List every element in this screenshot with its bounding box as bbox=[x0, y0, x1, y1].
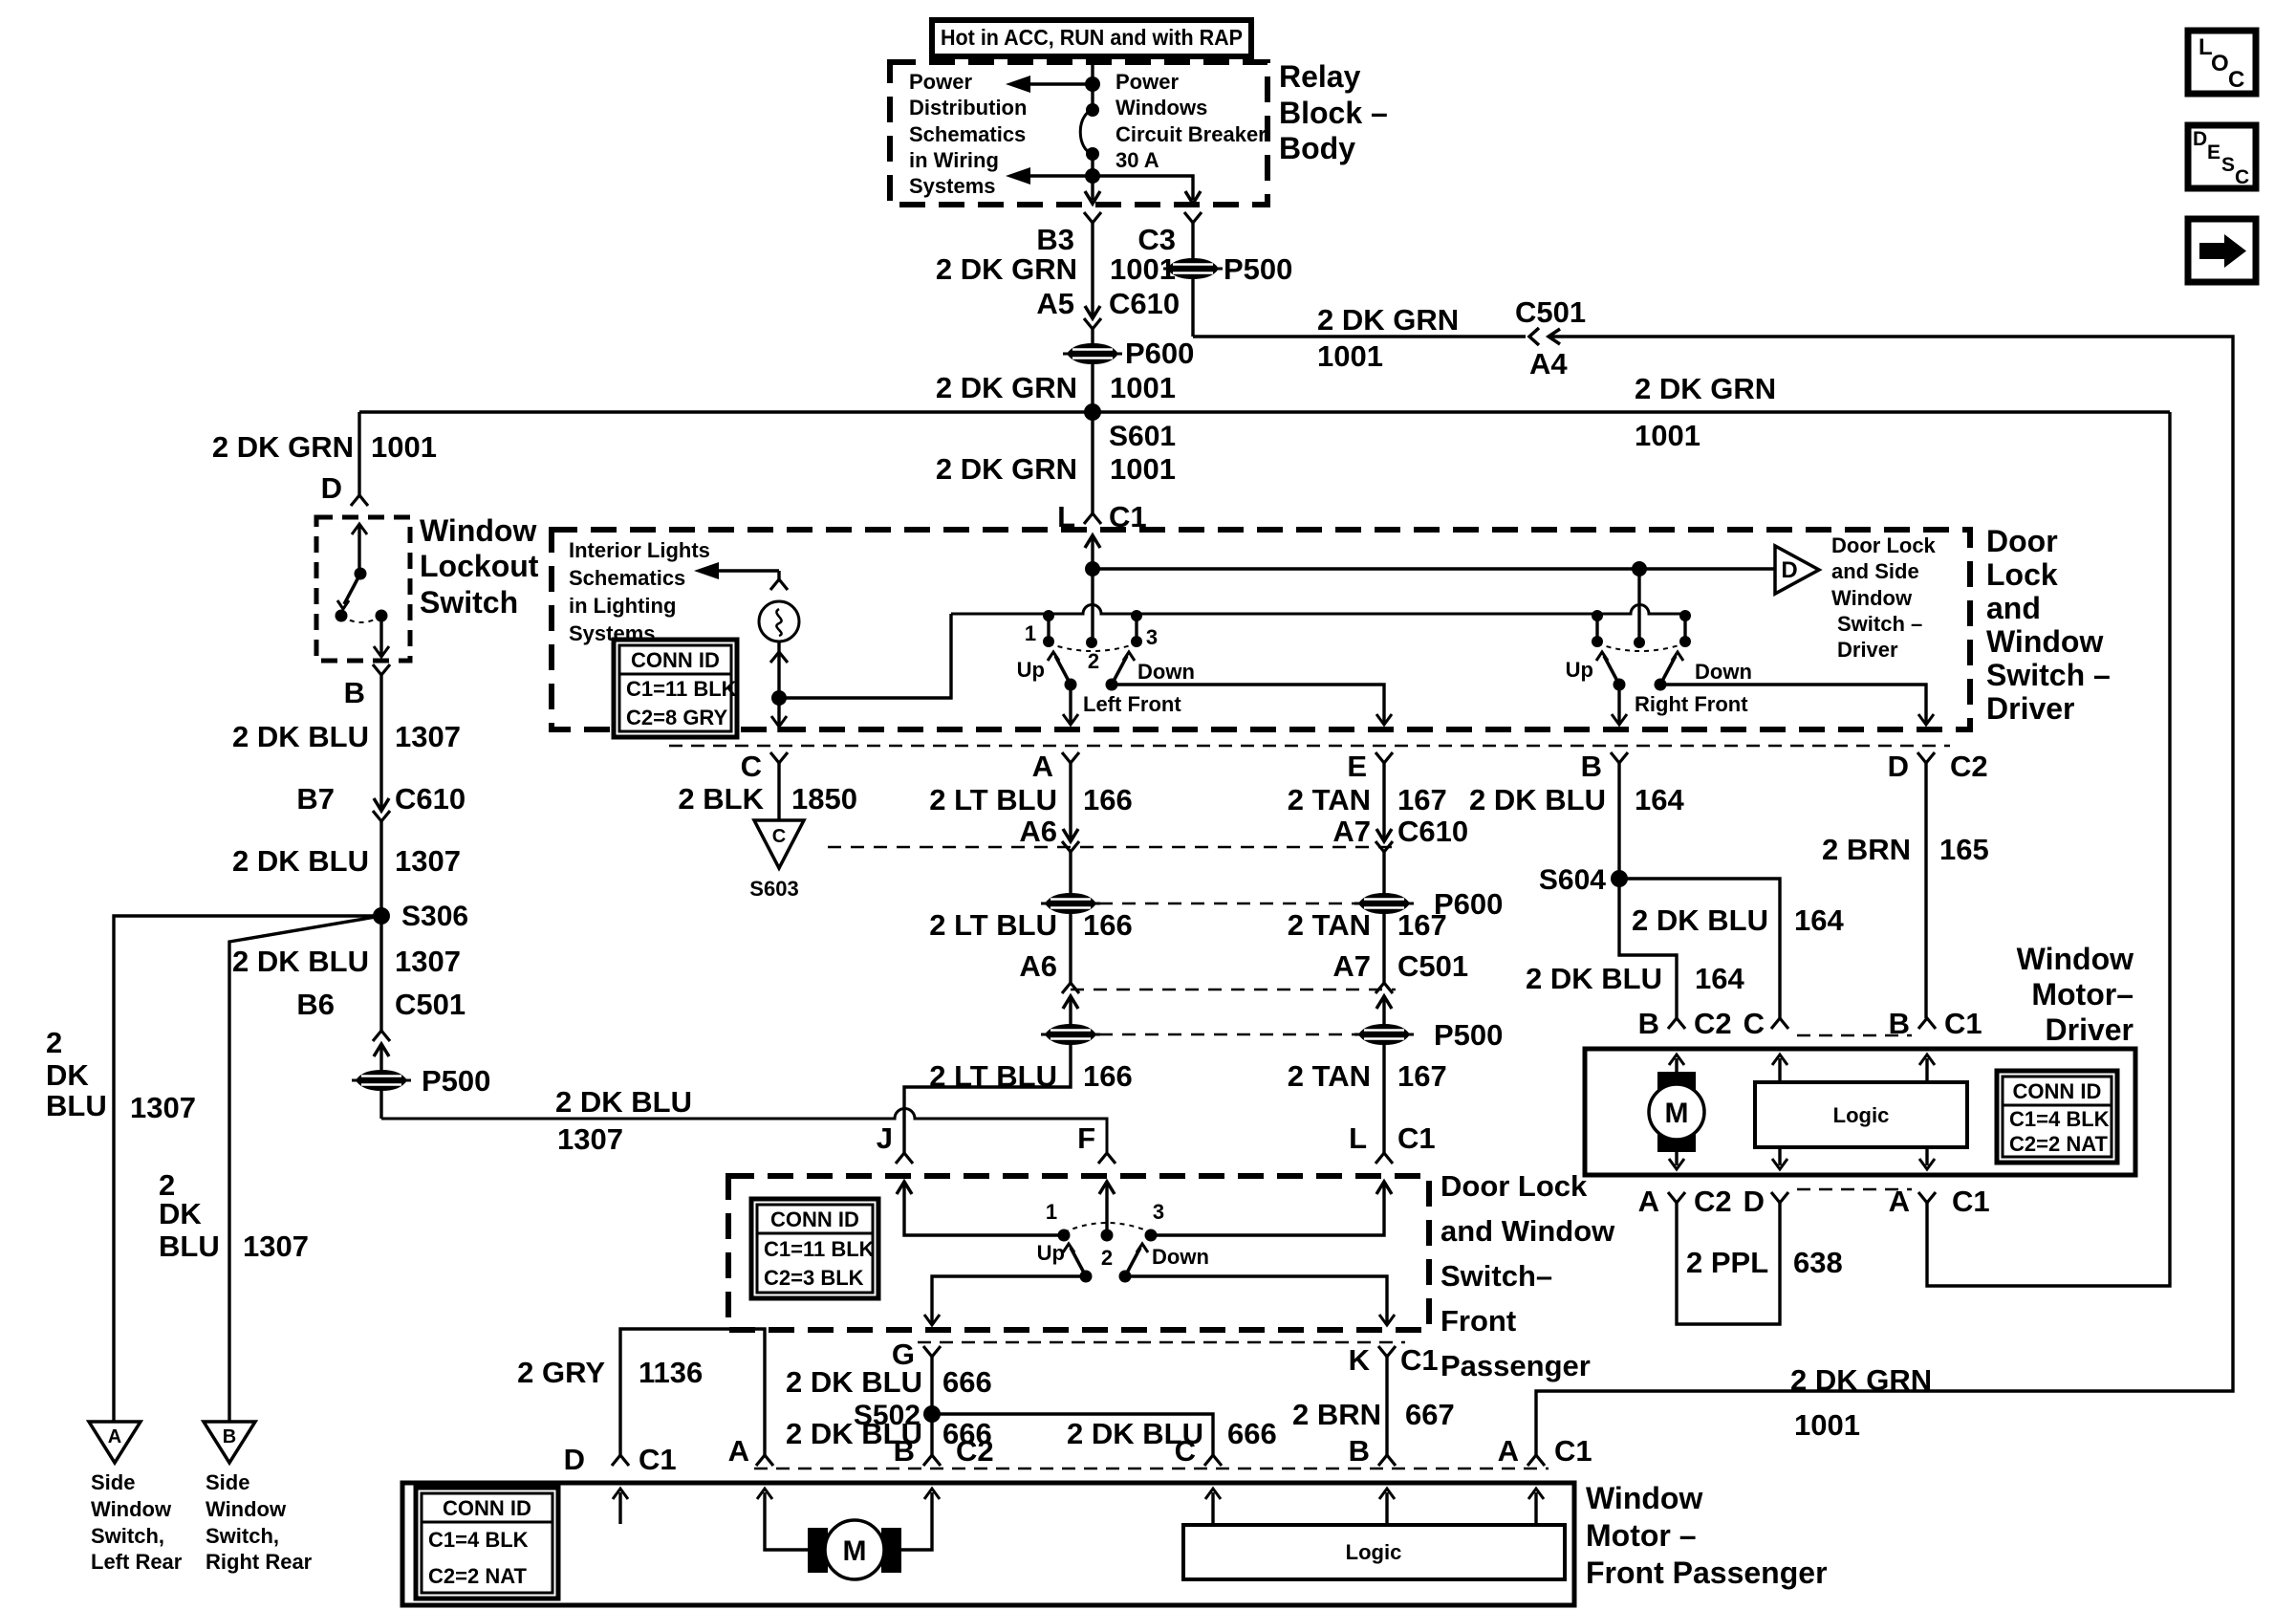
lockout contact to B bbox=[376, 610, 388, 622]
connector pin L C1 (passenger switch) bbox=[1375, 1153, 1393, 1164]
splice S502 bbox=[923, 1405, 941, 1423]
pin C bbox=[770, 752, 788, 763]
pin C (motor driver) bbox=[1771, 1018, 1788, 1029]
svg-text:2 DK GRN: 2 DK GRN bbox=[1635, 372, 1776, 405]
svg-text:2: 2 bbox=[1088, 649, 1099, 673]
right front window switch bbox=[1637, 569, 1640, 638]
connector face dashed C1 top bbox=[1797, 1034, 1912, 1037]
svg-text:2 DK BLU: 2 DK BLU bbox=[232, 844, 369, 878]
right front switch wiper up bbox=[1614, 679, 1626, 691]
svg-text:1850: 1850 bbox=[791, 782, 857, 816]
svg-text:2 DK GRN: 2 DK GRN bbox=[1317, 303, 1459, 337]
pin G bbox=[923, 1346, 941, 1357]
node bus right-front bbox=[1632, 561, 1647, 577]
svg-text:Window: Window bbox=[420, 513, 536, 548]
svg-text:1001: 1001 bbox=[1317, 339, 1383, 373]
svg-text:P500: P500 bbox=[422, 1064, 490, 1098]
connector pin C3 bbox=[1184, 212, 1202, 223]
svg-text:P500: P500 bbox=[1224, 252, 1292, 286]
svg-text:C1: C1 bbox=[639, 1443, 677, 1476]
svg-text:2 DK GRN: 2 DK GRN bbox=[1790, 1363, 1932, 1397]
svg-text:Window: Window bbox=[91, 1497, 172, 1521]
svg-text:C1=11 BLK: C1=11 BLK bbox=[764, 1237, 875, 1261]
svg-text:3: 3 bbox=[1153, 1200, 1164, 1224]
svg-text:1001: 1001 bbox=[1794, 1408, 1860, 1442]
wire arrow to Power Distribution (bottom) bbox=[1030, 174, 1093, 177]
svg-text:2 BRN: 2 BRN bbox=[1822, 833, 1911, 866]
svg-text:Schematics: Schematics bbox=[909, 122, 1026, 146]
driver switch connector face bbox=[669, 745, 1950, 748]
wire wiper to E bbox=[1112, 685, 1384, 725]
svg-text:Down: Down bbox=[1152, 1245, 1209, 1269]
svg-text:Driver: Driver bbox=[1986, 691, 2075, 726]
svg-text:BLU: BLU bbox=[159, 1229, 220, 1263]
svg-text:D: D bbox=[2193, 128, 2207, 150]
node: breaker output junction bbox=[1085, 168, 1100, 184]
svg-text:Windows: Windows bbox=[1116, 96, 1207, 120]
svg-text:M: M bbox=[843, 1535, 867, 1567]
Hot in ACC label box bbox=[932, 20, 1251, 56]
svg-text:1: 1 bbox=[1046, 1200, 1057, 1224]
icon box arrow bbox=[2188, 219, 2256, 282]
motor M driver bbox=[1657, 1072, 1696, 1090]
svg-text:D: D bbox=[1781, 557, 1797, 583]
svg-text:E: E bbox=[2207, 141, 2220, 163]
svg-text:A: A bbox=[1638, 1185, 1659, 1218]
svg-text:Down: Down bbox=[1695, 660, 1752, 684]
svg-text:D: D bbox=[321, 471, 342, 505]
svg-text:167: 167 bbox=[1397, 1059, 1447, 1093]
svg-text:B6: B6 bbox=[296, 988, 335, 1021]
pin B C2 (motor driver) bbox=[1668, 1018, 1685, 1029]
svg-text:Lock: Lock bbox=[1986, 557, 2058, 592]
ground triangle C S603 bbox=[754, 820, 804, 868]
svg-text:L: L bbox=[1349, 1121, 1367, 1155]
svg-text:C1: C1 bbox=[1952, 1185, 1990, 1218]
svg-text:Left Front: Left Front bbox=[1083, 692, 1181, 716]
svg-text:C2=2 NAT: C2=2 NAT bbox=[2009, 1132, 2108, 1156]
svg-text:Up: Up bbox=[1566, 658, 1593, 682]
svg-text:and Side: and Side bbox=[1831, 559, 1919, 583]
illumination lamp bbox=[759, 601, 799, 642]
svg-text:Circuit Breaker: Circuit Breaker bbox=[1116, 122, 1267, 146]
wire S601 down to L C1 bbox=[1091, 412, 1094, 513]
wire C3 branch inside relay block bbox=[1093, 176, 1193, 200]
svg-text:DK: DK bbox=[46, 1058, 89, 1092]
wire S306 to right rear switch B bbox=[229, 916, 381, 1422]
pin B C1 (motor driver) bbox=[1918, 1018, 1936, 1029]
in-line connector A7 C501 bbox=[1375, 983, 1393, 993]
wire 2 PPL 638 loop bbox=[1677, 1203, 1780, 1324]
pin A C2 (passenger motor) bbox=[756, 1455, 773, 1466]
svg-text:Schematics: Schematics bbox=[569, 566, 685, 590]
splice S306 bbox=[373, 907, 390, 925]
svg-text:2 DK BLU: 2 DK BLU bbox=[1469, 783, 1606, 816]
svg-text:2 DK BLU: 2 DK BLU bbox=[232, 945, 369, 978]
wire C3 to P500 grommet bbox=[1191, 223, 1194, 337]
svg-text:S: S bbox=[2221, 154, 2235, 176]
svg-text:C: C bbox=[2235, 166, 2249, 188]
lockout switch blade bbox=[344, 574, 360, 604]
svg-text:B: B bbox=[223, 1426, 236, 1447]
svg-text:A: A bbox=[1889, 1185, 1910, 1218]
svg-text:2 DK GRN: 2 DK GRN bbox=[936, 371, 1077, 404]
svg-text:E: E bbox=[1347, 750, 1367, 783]
svg-text:J: J bbox=[877, 1121, 893, 1155]
svg-text:1001: 1001 bbox=[371, 430, 437, 464]
svg-text:164: 164 bbox=[1695, 962, 1744, 995]
relay block dashed box bbox=[890, 62, 1267, 205]
svg-text:2 DK BLU: 2 DK BLU bbox=[1526, 962, 1662, 995]
svg-text:B7: B7 bbox=[296, 782, 335, 816]
svg-text:C2: C2 bbox=[1950, 750, 1988, 783]
in-line connector A6 C610 bbox=[1063, 829, 1078, 841]
svg-text:C1=4 BLK: C1=4 BLK bbox=[428, 1528, 529, 1552]
svg-text:O: O bbox=[2211, 51, 2229, 76]
node: feed junction bbox=[1085, 76, 1100, 92]
right front switch wiper down bbox=[1655, 679, 1667, 691]
svg-text:C: C bbox=[741, 750, 762, 783]
svg-text:B: B bbox=[894, 1434, 915, 1468]
pin B C1 (passenger motor) bbox=[1378, 1455, 1396, 1466]
logic module driver bbox=[1755, 1082, 1967, 1147]
svg-text:C501: C501 bbox=[395, 988, 466, 1021]
connector face dashed C1 bottom bbox=[1797, 1188, 1912, 1191]
svg-text:C1: C1 bbox=[1944, 1007, 1982, 1040]
svg-text:2 TAN: 2 TAN bbox=[1288, 1059, 1371, 1093]
wire 2 BLK 1850 to ground bbox=[777, 763, 780, 820]
svg-text:2 BLK: 2 BLK bbox=[678, 782, 764, 816]
svg-text:2 DK BLU: 2 DK BLU bbox=[1632, 903, 1768, 937]
svg-text:167: 167 bbox=[1397, 908, 1447, 942]
svg-text:Logic: Logic bbox=[1346, 1540, 1402, 1564]
C501 boundary dashed bbox=[1071, 989, 1396, 991]
wire wiper to G bbox=[932, 1276, 1086, 1325]
arrows into passenger motor bbox=[618, 1492, 621, 1524]
svg-text:and: and bbox=[1986, 591, 2041, 625]
wire to P600 bbox=[1091, 329, 1094, 412]
svg-text:Right Rear: Right Rear bbox=[206, 1550, 313, 1574]
wire 166 to J bbox=[904, 1044, 1071, 1153]
wire through P500 to 1307 run bbox=[379, 1044, 382, 1119]
svg-text:1307: 1307 bbox=[395, 844, 461, 878]
svg-text:2 LT BLU: 2 LT BLU bbox=[929, 908, 1057, 942]
svg-text:Switch: Switch bbox=[420, 585, 518, 620]
svg-text:C610: C610 bbox=[1109, 287, 1180, 320]
icon box DESC bbox=[2188, 125, 2256, 188]
switch contacts passenger bbox=[904, 1182, 1064, 1235]
svg-text:C2: C2 bbox=[1694, 1007, 1732, 1040]
dashed between P600 grommets bbox=[1099, 903, 1355, 905]
svg-text:CONN ID: CONN ID bbox=[770, 1207, 859, 1231]
2 GRY 1136 loop D C1 to A bbox=[620, 1329, 765, 1455]
svg-text:Lockout: Lockout bbox=[420, 549, 539, 583]
svg-text:166: 166 bbox=[1083, 1059, 1133, 1093]
wire lamp splice to switch bus bbox=[779, 614, 951, 698]
svg-text:Hot in ACC, RUN and with RAP: Hot in ACC, RUN and with RAP bbox=[941, 25, 1243, 50]
wire wiper to D C2 bbox=[1660, 685, 1926, 725]
wire wiper to A bbox=[1069, 685, 1072, 725]
svg-text:Side: Side bbox=[91, 1470, 135, 1494]
svg-text:Left Rear: Left Rear bbox=[91, 1550, 183, 1574]
svg-text:165: 165 bbox=[1939, 833, 1989, 866]
svg-text:2 GRY: 2 GRY bbox=[517, 1356, 605, 1389]
conn id table driver motor bbox=[1997, 1071, 2117, 1163]
svg-text:P600: P600 bbox=[1125, 337, 1194, 370]
svg-text:Power: Power bbox=[1116, 70, 1179, 94]
svg-text:C1: C1 bbox=[1397, 1121, 1436, 1155]
door lock and window switch driver dashed box bbox=[552, 530, 1970, 729]
svg-text:D: D bbox=[564, 1443, 585, 1476]
svg-text:C2: C2 bbox=[956, 1434, 994, 1468]
svg-text:C: C bbox=[1744, 1007, 1765, 1040]
svg-text:167: 167 bbox=[1397, 783, 1447, 816]
left front switch wiper down bbox=[1106, 679, 1118, 691]
connector pin D (lockout) bbox=[351, 495, 368, 506]
svg-text:A7: A7 bbox=[1332, 949, 1371, 983]
svg-text:Body: Body bbox=[1279, 131, 1355, 165]
wire wiper to K bbox=[1125, 1276, 1387, 1325]
in-line connector C501 A4 bbox=[1529, 328, 1539, 345]
lamp splice bbox=[771, 690, 787, 706]
in-line connector A5 C610 bbox=[1085, 306, 1100, 318]
svg-text:DK: DK bbox=[159, 1197, 202, 1230]
conn id table passenger motor bbox=[416, 1488, 558, 1599]
grommet P500 (body) bbox=[1163, 258, 1223, 279]
wire bus down to lockout D bbox=[357, 412, 360, 495]
svg-text:1307: 1307 bbox=[395, 720, 461, 753]
svg-text:C1=4 BLK: C1=4 BLK bbox=[2009, 1107, 2110, 1131]
svg-text:2: 2 bbox=[1101, 1246, 1113, 1270]
wire C501 to right side down to passenger motor A C1 bbox=[1536, 337, 2233, 1455]
wire 2 DK GRN 1001 (B3 to C610) bbox=[1091, 223, 1094, 316]
door lock and window switch front passenger dashed box bbox=[728, 1176, 1429, 1330]
svg-text:166: 166 bbox=[1083, 783, 1133, 816]
svg-text:Motor–: Motor– bbox=[2031, 977, 2134, 1012]
svg-text:C2=8 GRY: C2=8 GRY bbox=[626, 706, 728, 729]
svg-text:2 DK GRN: 2 DK GRN bbox=[936, 452, 1077, 486]
pin E bbox=[1375, 752, 1393, 763]
splice S604 bbox=[1611, 870, 1628, 887]
pin A C1 (motor driver bottom) bbox=[1918, 1192, 1936, 1203]
svg-text:2 TAN: 2 TAN bbox=[1288, 908, 1371, 942]
svg-text:Switch –: Switch – bbox=[1837, 612, 1922, 636]
svg-text:667: 667 bbox=[1405, 1398, 1455, 1431]
svg-text:2 DK BLU: 2 DK BLU bbox=[786, 1365, 922, 1399]
svg-text:B3: B3 bbox=[1036, 223, 1074, 256]
pin D C2 bbox=[1917, 752, 1935, 763]
pin A C1 (passenger motor) bbox=[1527, 1455, 1545, 1466]
svg-text:D: D bbox=[1888, 750, 1909, 783]
grommet P600 (left door) bbox=[1041, 893, 1100, 914]
svg-text:Up: Up bbox=[1017, 658, 1045, 682]
svg-text:A: A bbox=[108, 1426, 121, 1447]
svg-text:Distribution: Distribution bbox=[909, 96, 1027, 120]
connector pin B3 bbox=[1084, 212, 1101, 223]
pin B bbox=[1611, 752, 1628, 763]
wire 2 DK BLU 666 from G bbox=[930, 1357, 933, 1455]
svg-text:Switch–: Switch– bbox=[1440, 1259, 1552, 1293]
svg-text:1136: 1136 bbox=[639, 1356, 703, 1389]
svg-text:A7: A7 bbox=[1332, 815, 1371, 848]
svg-text:Side: Side bbox=[206, 1470, 249, 1494]
svg-text:1001: 1001 bbox=[1110, 371, 1176, 404]
svg-text:666: 666 bbox=[1227, 1417, 1277, 1450]
svg-text:2 LT BLU: 2 LT BLU bbox=[929, 783, 1057, 816]
svg-text:Window: Window bbox=[1586, 1481, 1702, 1515]
svg-text:Window: Window bbox=[2017, 942, 2134, 976]
svg-text:Down: Down bbox=[1137, 660, 1195, 684]
window motor front passenger box bbox=[402, 1483, 1574, 1605]
svg-text:S603: S603 bbox=[749, 877, 798, 901]
svg-text:BLU: BLU bbox=[46, 1089, 107, 1122]
passenger switch wiper down bbox=[1119, 1271, 1132, 1283]
left front switch wiper up bbox=[1065, 679, 1077, 691]
lamp circuit feed bbox=[777, 571, 780, 579]
svg-text:Right Front: Right Front bbox=[1635, 692, 1748, 716]
svg-text:B: B bbox=[1349, 1434, 1370, 1468]
svg-text:A5: A5 bbox=[1036, 287, 1074, 320]
svg-text:2 PPL: 2 PPL bbox=[1686, 1246, 1768, 1279]
svg-text:Switch,: Switch, bbox=[206, 1524, 279, 1548]
svg-text:2 DK BLU: 2 DK BLU bbox=[555, 1085, 692, 1119]
svg-text:Front Passenger: Front Passenger bbox=[1586, 1556, 1828, 1590]
svg-text:Driver: Driver bbox=[2046, 1012, 2134, 1047]
wire 2 DK BLU 164 from B bbox=[1619, 763, 1677, 1018]
wire arrow to Interior Lights Schematics bbox=[719, 569, 779, 572]
pin K C1 bbox=[1378, 1346, 1396, 1357]
grommet P500 (left) bbox=[352, 1070, 411, 1091]
svg-text:M: M bbox=[1665, 1098, 1689, 1129]
svg-text:Passenger: Passenger bbox=[1440, 1349, 1591, 1382]
main bus 2 DK GRN 1001 from S601 bbox=[359, 410, 2170, 413]
passenger switch wiper up bbox=[1080, 1271, 1093, 1283]
connector pin L C1 (driver switch) bbox=[1084, 513, 1101, 524]
svg-text:C1=11 BLK: C1=11 BLK bbox=[626, 677, 737, 701]
svg-text:S306: S306 bbox=[401, 901, 468, 932]
svg-text:Window: Window bbox=[1986, 624, 2103, 659]
svg-text:Relay: Relay bbox=[1279, 59, 1361, 94]
wire 2 DK BLU 1307 down bbox=[379, 675, 382, 809]
dashed between P500 grommets bbox=[1099, 1033, 1355, 1036]
svg-text:Front: Front bbox=[1440, 1304, 1516, 1338]
grommet P600 bbox=[1063, 343, 1122, 364]
connector pin B (lockout) bbox=[373, 664, 390, 675]
svg-text:Window: Window bbox=[1831, 586, 1913, 610]
svg-text:A: A bbox=[1032, 750, 1053, 783]
svg-text:1307: 1307 bbox=[395, 945, 461, 978]
svg-text:1307: 1307 bbox=[557, 1122, 623, 1156]
svg-text:C610: C610 bbox=[1397, 815, 1468, 848]
svg-text:Door Lock: Door Lock bbox=[1831, 533, 1937, 557]
svg-text:C: C bbox=[1175, 1434, 1196, 1468]
connector pin J bbox=[896, 1153, 913, 1164]
svg-text:C3: C3 bbox=[1137, 223, 1176, 256]
svg-text:1307: 1307 bbox=[243, 1229, 309, 1263]
svg-text:666: 666 bbox=[942, 1365, 992, 1399]
wire S604 to C pin of driver motor bbox=[1619, 879, 1780, 1018]
grommet P500 (right) bbox=[1354, 1024, 1414, 1045]
svg-text:Block –: Block – bbox=[1279, 96, 1388, 130]
wire 2 BRN 165 from D C2 bbox=[1924, 763, 1927, 1018]
grommet P600 (right) bbox=[1354, 893, 1414, 914]
wire 2 LT BLU 166 (A) bbox=[1069, 763, 1072, 839]
off-page triangle B (side window switch right rear) bbox=[204, 1422, 255, 1463]
svg-text:2: 2 bbox=[46, 1026, 62, 1059]
conn id table driver switch bbox=[614, 640, 737, 737]
pin D (motor driver bottom) bbox=[1771, 1192, 1788, 1203]
node bus L bbox=[1085, 561, 1100, 577]
svg-text:S604: S604 bbox=[1539, 864, 1606, 896]
svg-text:Interior Lights: Interior Lights bbox=[569, 538, 710, 562]
svg-text:A4: A4 bbox=[1529, 347, 1568, 381]
svg-text:2 DK GRN: 2 DK GRN bbox=[212, 430, 354, 464]
svg-text:C1: C1 bbox=[1554, 1434, 1592, 1468]
C610 boundary dashed bbox=[828, 846, 1396, 849]
svg-text:Driver: Driver bbox=[1837, 638, 1898, 662]
in-line connector B6 C501 bbox=[373, 1031, 390, 1041]
pin C (passenger motor) bbox=[1204, 1455, 1222, 1466]
svg-text:C2=2 NAT: C2=2 NAT bbox=[428, 1564, 527, 1588]
grommet P500 (left door) bbox=[1041, 1024, 1100, 1045]
svg-text:C1: C1 bbox=[1400, 1343, 1439, 1377]
pin A bbox=[1062, 752, 1079, 763]
svg-text:in Wiring: in Wiring bbox=[909, 148, 999, 172]
off-page triangle A (side window switch left rear) bbox=[89, 1422, 141, 1463]
wire 2 DK BLU 1307 horizontal to F bbox=[381, 1109, 1107, 1154]
in-line connector A7 C610 bbox=[1376, 829, 1392, 841]
svg-text:Door: Door bbox=[1986, 524, 2058, 558]
window motor driver box bbox=[1585, 1049, 2135, 1175]
wire 2 TAN 167 (E) bbox=[1382, 763, 1385, 839]
svg-text:C: C bbox=[2228, 67, 2244, 93]
window lockout switch box bbox=[316, 517, 410, 661]
svg-text:2 TAN: 2 TAN bbox=[1288, 783, 1371, 816]
wire S502 to C pin passenger motor bbox=[932, 1414, 1213, 1455]
wire arrow to Power Distribution (top) bbox=[1030, 82, 1093, 85]
passenger switch connector face bbox=[918, 1341, 1405, 1344]
lockout switch contacts bbox=[352, 524, 367, 534]
conn id table passenger switch bbox=[751, 1199, 878, 1298]
pin B C2 (passenger motor) bbox=[923, 1455, 941, 1466]
wire 2 DK GRN 1001 to C501 A4 bbox=[1193, 335, 1526, 337]
svg-text:Motor –: Motor – bbox=[1586, 1518, 1697, 1553]
circuit breaker 30A bbox=[1091, 59, 1094, 110]
splice S601 bbox=[1084, 403, 1101, 421]
svg-text:Door Lock: Door Lock bbox=[1440, 1169, 1588, 1203]
switch bus lower with hops bbox=[951, 605, 1684, 615]
svg-text:CONN ID: CONN ID bbox=[2013, 1079, 2102, 1103]
svg-text:1001: 1001 bbox=[1110, 452, 1176, 486]
icon box LOC bbox=[2188, 31, 2256, 94]
svg-text:S601: S601 bbox=[1109, 421, 1176, 452]
svg-text:2 DK GRN: 2 DK GRN bbox=[936, 252, 1077, 286]
svg-text:C501: C501 bbox=[1397, 949, 1468, 983]
svg-text:K: K bbox=[1349, 1343, 1371, 1377]
svg-text:A: A bbox=[1498, 1434, 1519, 1468]
in-line connector A6 C501 bbox=[1062, 983, 1079, 993]
svg-text:2 DK BLU: 2 DK BLU bbox=[232, 720, 369, 753]
svg-text:Power: Power bbox=[909, 70, 972, 94]
svg-text:1001: 1001 bbox=[1635, 419, 1700, 452]
svg-text:CONN ID: CONN ID bbox=[631, 648, 720, 672]
arrow into L bbox=[1091, 535, 1094, 569]
svg-text:Window: Window bbox=[206, 1497, 287, 1521]
wire 2 BRN 667 from K bbox=[1385, 1357, 1388, 1455]
svg-text:1: 1 bbox=[1025, 621, 1036, 645]
svg-text:166: 166 bbox=[1083, 908, 1133, 942]
connector face dashed passenger motor bbox=[754, 1468, 1549, 1470]
